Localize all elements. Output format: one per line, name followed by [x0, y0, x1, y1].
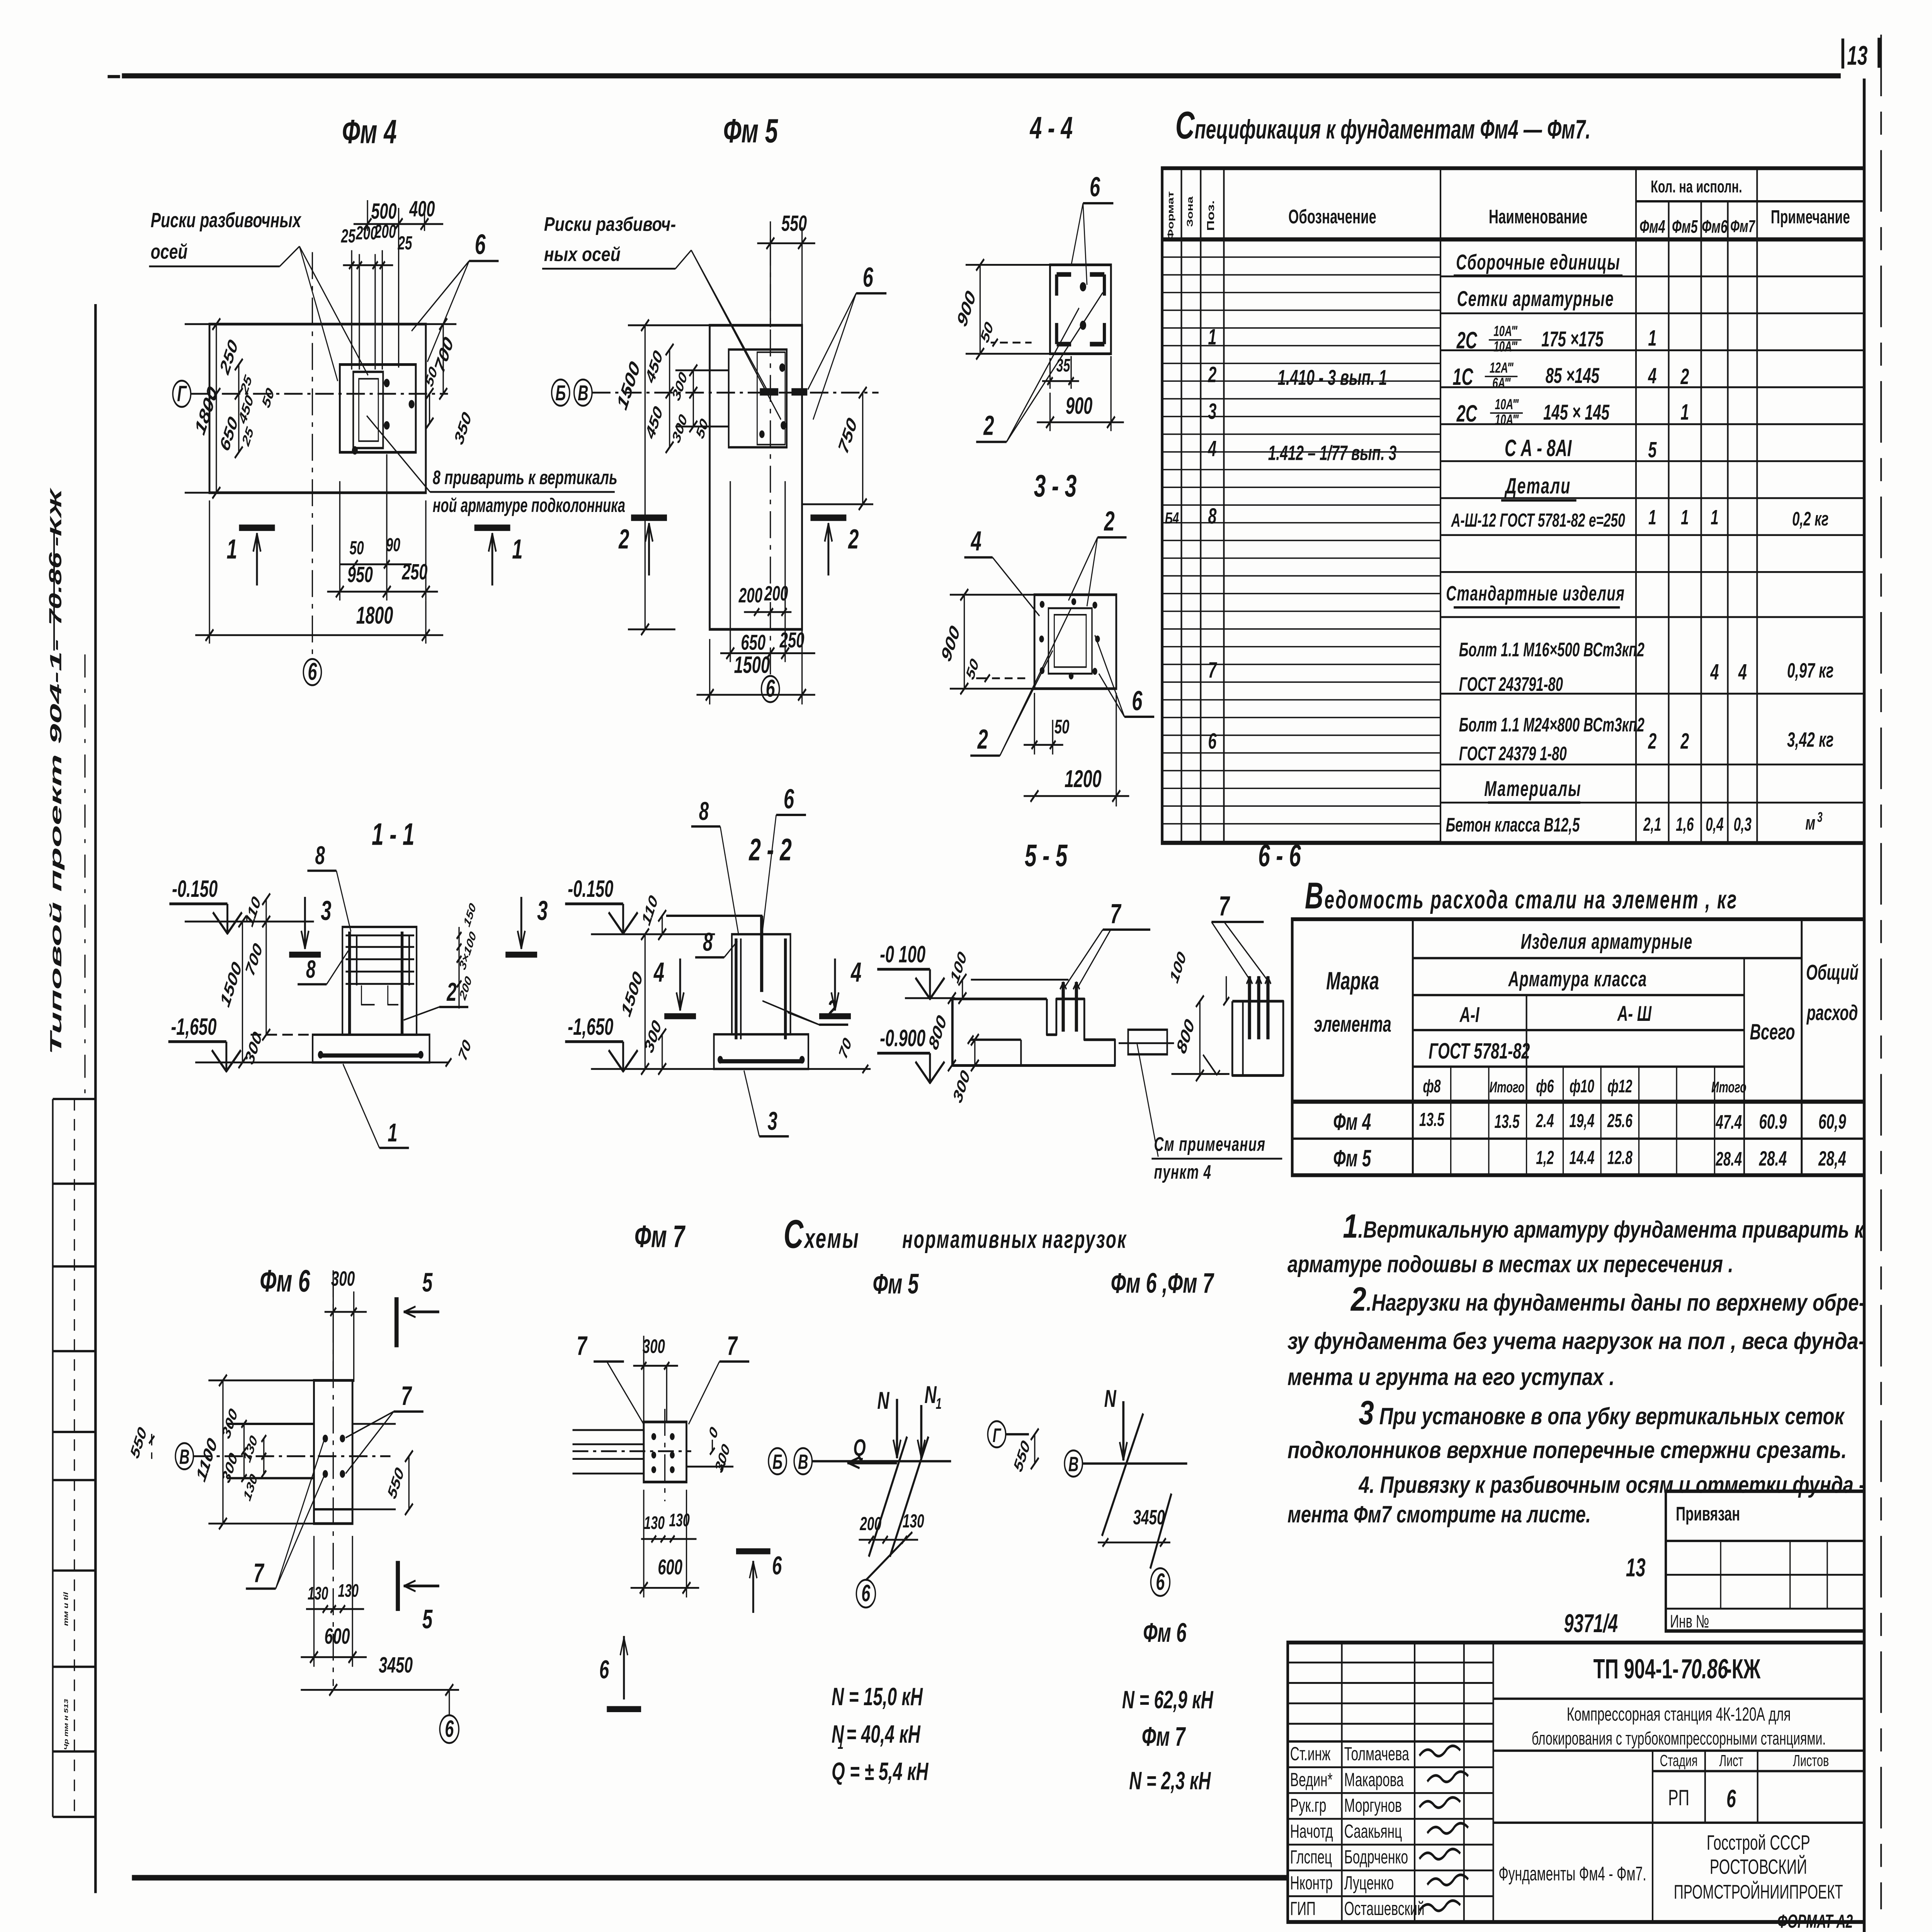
svg-text:-КЖ: -КЖ	[47, 487, 65, 547]
svg-text:0,2 кг: 0,2 кг	[1792, 509, 1828, 530]
svg-text:ной арматуре подколонника: ной арматуре подколонника	[433, 495, 625, 517]
svg-text:250: 250	[402, 560, 428, 584]
svg-text:4: 4	[1738, 660, 1747, 684]
svg-text:Фм 7: Фм 7	[634, 1219, 686, 1254]
svg-text:900: 900	[1066, 393, 1092, 419]
svg-text:7: 7	[253, 1558, 265, 1588]
svg-text:10А‴: 10А‴	[1493, 323, 1518, 339]
svg-text:Фм 6: Фм 6	[260, 1263, 310, 1298]
svg-text:расход: расход	[1806, 1001, 1858, 1025]
svg-text:10А‴: 10А‴	[1495, 412, 1519, 428]
svg-text:В: В	[798, 1450, 808, 1474]
svg-text:6: 6	[772, 1551, 782, 1580]
svg-text:2: 2	[983, 410, 994, 441]
svg-text:2: 2	[1680, 364, 1689, 389]
svg-text:Ст.инж: Ст.инж	[1290, 1743, 1331, 1764]
svg-text:1: 1	[1711, 505, 1719, 529]
svg-text:6: 6	[1726, 1785, 1736, 1813]
svg-text:Фм4: Фм4	[1639, 217, 1665, 237]
svg-text:1: 1	[936, 1395, 942, 1412]
svg-text:1.410 - 3 вып. 1: 1.410 - 3 вып. 1	[1277, 366, 1387, 390]
svg-text:1: 1	[512, 534, 522, 565]
svg-text:1: 1	[1648, 326, 1656, 350]
svg-text:Фм 4: Фм 4	[1333, 1109, 1371, 1135]
svg-text:Q = ± 5,4 кН: Q = ± 5,4 кН	[832, 1757, 929, 1785]
svg-text:25: 25	[398, 232, 413, 253]
svg-text:Арматура класса: Арматура класса	[1508, 967, 1647, 991]
svg-text:1С: 1С	[1452, 364, 1473, 391]
svg-text:14.4: 14.4	[1569, 1147, 1594, 1168]
svg-text:2: 2	[848, 524, 859, 554]
svg-text:Детали: Детали	[1504, 474, 1571, 498]
svg-text:130: 130	[308, 1583, 328, 1603]
svg-text:600: 600	[325, 1624, 350, 1649]
svg-text:пункт 4: пункт 4	[1154, 1162, 1211, 1183]
svg-text:Б4: Б4	[1165, 509, 1179, 527]
svg-text:200: 200	[374, 221, 396, 242]
svg-text:6: 6	[308, 658, 317, 685]
svg-text:нагрузок: нагрузок	[1042, 1225, 1127, 1253]
svg-text:6: 6	[1090, 172, 1100, 202]
svg-text:4: 4	[1208, 436, 1217, 461]
svg-text:6: 6	[1208, 729, 1216, 753]
svg-text:нормативных: нормативных	[902, 1225, 1038, 1253]
svg-text:Q: Q	[853, 1435, 866, 1461]
svg-text:3450: 3450	[379, 1653, 413, 1677]
svg-text:3: 3	[321, 895, 331, 926]
svg-text:Материалы: Материалы	[1484, 777, 1582, 801]
svg-text:7: 7	[401, 1381, 412, 1411]
svg-text:7: 7	[577, 1331, 588, 1361]
svg-text:6: 6	[766, 675, 776, 702]
svg-text:Листов: Листов	[1793, 1752, 1829, 1770]
svg-text:Риски разбивоч-: Риски разбивоч-	[544, 214, 676, 235]
svg-text:Чр тм н 513: Чр тм н 513	[63, 1699, 70, 1750]
svg-text:2,1: 2,1	[1643, 814, 1661, 835]
svg-text:Лист: Лист	[1719, 1752, 1743, 1770]
svg-text:Нконтр: Нконтр	[1290, 1872, 1333, 1893]
svg-text:Всего: Всего	[1750, 1019, 1795, 1044]
svg-text:550: 550	[781, 211, 807, 236]
svg-text:Поз.: Поз.	[1205, 200, 1216, 231]
svg-text:2.4: 2.4	[1536, 1110, 1554, 1131]
svg-text:10А‴: 10А‴	[1495, 396, 1519, 412]
svg-text:-0 100: -0 100	[880, 942, 925, 968]
svg-text:2: 2	[446, 978, 456, 1007]
svg-text:10А‴: 10А‴	[1493, 338, 1518, 355]
svg-text:-1,650: -1,650	[171, 1014, 216, 1040]
svg-text:Фм 5: Фм 5	[873, 1268, 919, 1300]
svg-text:600: 600	[658, 1556, 682, 1580]
svg-text:Ведин*: Ведин*	[1290, 1769, 1333, 1790]
svg-text:8 приварить к вертикаль: 8 приварить к вертикаль	[433, 467, 617, 489]
svg-text:4. Привязку к разбивочным о: 4. Привязку к разбивочным осям и отметки…	[1358, 1472, 1865, 1498]
svg-text:1,2: 1,2	[1536, 1147, 1554, 1168]
svg-text:блокирования с турбокомпрессор: блокирования с турбокомпрессорными станц…	[1532, 1728, 1826, 1748]
svg-text:28,4: 28,4	[1818, 1147, 1846, 1170]
svg-text:4: 4	[1710, 660, 1719, 684]
svg-text:В: В	[1068, 1452, 1079, 1476]
svg-text:ГОСТ 243791-80: ГОСТ 243791-80	[1459, 674, 1563, 696]
svg-text:8: 8	[699, 797, 709, 826]
svg-text:4: 4	[1648, 364, 1656, 388]
svg-text:7: 7	[1208, 658, 1217, 682]
svg-text:-1,650: -1,650	[568, 1014, 613, 1040]
svg-text:12.8: 12.8	[1607, 1147, 1633, 1168]
svg-text:25: 25	[341, 225, 356, 247]
svg-text:3: 3	[1208, 399, 1216, 424]
svg-text:1,6: 1,6	[1676, 814, 1694, 835]
svg-text:-0.900: -0.900	[880, 1026, 925, 1052]
svg-text:7: 7	[1110, 898, 1122, 929]
svg-text:Рук.гр: Рук.гр	[1290, 1795, 1327, 1816]
svg-text:-КЖ: -КЖ	[1725, 1653, 1760, 1684]
svg-text:В: В	[179, 1445, 190, 1469]
svg-text:ФОРМАТ А2: ФОРМАТ А2	[1777, 1911, 1853, 1932]
svg-text:8: 8	[1208, 504, 1216, 529]
svg-text:подколонников верхние попере: подколонников верхние поперечные стержни…	[1287, 1437, 1847, 1464]
svg-text:Б: Б	[555, 381, 566, 405]
svg-text:ф6: ф6	[1536, 1076, 1554, 1096]
svg-text:0,3: 0,3	[1734, 814, 1752, 835]
svg-text:Толмачева: Толмачева	[1344, 1743, 1410, 1764]
svg-text:Фм 6: Фм 6	[1143, 1617, 1187, 1648]
svg-text:19,4: 19,4	[1569, 1110, 1594, 1131]
svg-text:50: 50	[350, 537, 364, 558]
svg-text:Начотд: Начотд	[1290, 1821, 1333, 1842]
svg-text:0,97 кг: 0,97 кг	[1787, 658, 1833, 682]
svg-text:2: 2	[1208, 362, 1217, 387]
svg-text:250: 250	[779, 629, 804, 653]
svg-text:Бетон класса В12,5: Бетон класса В12,5	[1446, 814, 1580, 836]
svg-text:Примечание: Примечание	[1771, 206, 1850, 227]
svg-text:ГОСТ 5781-82: ГОСТ 5781-82	[1429, 1039, 1530, 1063]
svg-text:Сборочные единицы: Сборочные единицы	[1456, 250, 1620, 274]
svg-text:Фм5: Фм5	[1672, 217, 1698, 237]
svg-text:N: N	[1104, 1385, 1117, 1412]
svg-text:ф8: ф8	[1423, 1076, 1441, 1096]
svg-text:Фм7: Фм7	[1730, 217, 1755, 236]
svg-text:90: 90	[386, 534, 400, 555]
svg-text:60.9: 60.9	[1759, 1110, 1787, 1133]
svg-text:См примечания: См примечания	[1154, 1134, 1265, 1155]
svg-text:2: 2	[1104, 506, 1115, 537]
svg-text:500: 500	[371, 199, 396, 224]
svg-text:9371/4: 9371/4	[1564, 1609, 1618, 1638]
svg-text:ГОСТ 24379 1-80: ГОСТ 24379 1-80	[1459, 743, 1567, 765]
svg-text:5: 5	[422, 1604, 433, 1634]
svg-text:N = 15,0 кН: N = 15,0 кН	[832, 1683, 923, 1711]
svg-text:5: 5	[1648, 437, 1657, 462]
svg-text:200: 200	[859, 1513, 881, 1534]
svg-text:130: 130	[903, 1510, 924, 1532]
svg-text:Фм 5: Фм 5	[723, 112, 778, 150]
svg-text:элемента: элемента	[1314, 1012, 1391, 1037]
svg-text:Привязан: Привязан	[1676, 1503, 1740, 1525]
svg-text:6: 6	[784, 784, 794, 815]
svg-text:2: 2	[977, 724, 988, 755]
svg-text:ГИП: ГИП	[1290, 1898, 1316, 1919]
svg-text:Фундаменты Фм4 - Фм7.: Фундаменты Фм4 - Фм7.	[1498, 1863, 1646, 1885]
svg-text:3450: 3450	[1133, 1505, 1165, 1529]
svg-text:Фм6: Фм6	[1702, 217, 1728, 237]
svg-text:0,4: 0,4	[1706, 814, 1723, 835]
svg-text:1 - 1: 1 - 1	[372, 816, 415, 852]
svg-text:Итого: Итого	[1711, 1079, 1747, 1096]
svg-text:зу фундамента без учета на: зу фундамента без учета нагрузок на пол …	[1287, 1328, 1865, 1355]
svg-text:С А - 8АΙ: С А - 8АΙ	[1505, 435, 1572, 462]
svg-text:мента и грунта на его уст: мента и грунта на его уступах .	[1287, 1364, 1615, 1391]
svg-text:м: м	[1805, 813, 1815, 834]
svg-text:4: 4	[850, 957, 861, 988]
svg-text:Моргунов: Моргунов	[1344, 1795, 1402, 1816]
svg-text:ф10: ф10	[1570, 1076, 1594, 1096]
svg-text:13.5: 13.5	[1494, 1111, 1520, 1132]
svg-text:6: 6	[1156, 1569, 1165, 1595]
svg-text:4 - 4: 4 - 4	[1029, 110, 1073, 145]
svg-text:6: 6	[445, 1716, 454, 1742]
svg-text:Фм 5: Фм 5	[1333, 1146, 1371, 1172]
svg-text:5 - 5: 5 - 5	[1025, 838, 1068, 873]
svg-text:1: 1	[1208, 325, 1216, 349]
svg-text:8: 8	[306, 955, 316, 983]
svg-text:Стандартные изделия: Стандартные изделия	[1446, 582, 1625, 605]
svg-text:Компрессорная станция 4К-120А: Компрессорная станция 4К-120А для	[1567, 1704, 1791, 1725]
svg-text:6 - 6: 6 - 6	[1258, 838, 1301, 873]
svg-text:В: В	[578, 381, 588, 405]
svg-text:Б: Б	[772, 1450, 782, 1474]
svg-text:1: 1	[388, 1118, 397, 1147]
svg-text:2: 2	[1648, 729, 1656, 753]
svg-text:Саакьянц: Саакьянц	[1344, 1821, 1402, 1842]
svg-text:5: 5	[422, 1267, 433, 1297]
svg-text:7: 7	[1219, 891, 1230, 922]
svg-text:1.412 – 1/77 вып. 3: 1.412 – 1/77 вып. 3	[1268, 441, 1397, 464]
svg-text:1500: 1500	[734, 652, 770, 679]
svg-text:6А‴: 6А‴	[1492, 375, 1511, 391]
svg-text:3: 3	[767, 1107, 777, 1136]
svg-text:2 - 2: 2 - 2	[748, 832, 792, 867]
svg-text:47.4: 47.4	[1716, 1112, 1742, 1133]
svg-text:Стадия: Стадия	[1660, 1752, 1698, 1770]
svg-text:6: 6	[475, 229, 486, 260]
svg-text:400: 400	[409, 197, 435, 221]
svg-text:Изделия арматурные: Изделия арматурные	[1521, 930, 1693, 954]
svg-text:Фм 6 ,Фм 7: Фм 6 ,Фм 7	[1111, 1267, 1214, 1299]
svg-text:мента Фм7 смотрите на лист: мента Фм7 смотрите на листе.	[1287, 1502, 1591, 1528]
svg-text:3: 3	[1817, 809, 1823, 825]
svg-text:Кол. на исполн.: Кол. на исполн.	[1651, 177, 1742, 196]
svg-text:А- Ш: А- Ш	[1617, 1002, 1652, 1026]
svg-text:35: 35	[1056, 355, 1070, 375]
svg-text:ТП 904-1-: ТП 904-1-	[1593, 1653, 1679, 1684]
svg-text:28.4: 28.4	[1759, 1147, 1787, 1170]
svg-text:25.6: 25.6	[1607, 1110, 1633, 1131]
svg-text:3,42 кг: 3,42 кг	[1787, 728, 1833, 752]
svg-text:= 40,4 кН: = 40,4 кН	[846, 1720, 921, 1748]
svg-text:Макарова: Макарова	[1344, 1769, 1404, 1790]
svg-text:4: 4	[970, 526, 981, 556]
svg-text:Итого: Итого	[1490, 1079, 1525, 1096]
svg-text:950: 950	[347, 562, 373, 587]
svg-text:Фм 7: Фм 7	[1142, 1721, 1186, 1752]
svg-text:Наименование: Наименование	[1489, 206, 1587, 228]
svg-text:А-Ι: А-Ι	[1459, 1003, 1480, 1027]
svg-text:2: 2	[618, 524, 629, 554]
svg-text:N = 62,9 кН: N = 62,9 кН	[1122, 1686, 1214, 1714]
svg-text:1: 1	[838, 1735, 844, 1752]
svg-text:6: 6	[861, 1581, 871, 1607]
svg-text:ных осей: ных осей	[544, 244, 621, 265]
svg-text:12А‴: 12А‴	[1490, 360, 1514, 376]
svg-text:Г: Г	[177, 381, 187, 406]
svg-text:70.86: 70.86	[46, 552, 65, 626]
svg-text:8: 8	[703, 928, 713, 957]
svg-text:6: 6	[599, 1655, 609, 1684]
svg-text:2С: 2С	[1456, 328, 1478, 354]
svg-text:Глспец: Глспец	[1290, 1846, 1332, 1867]
svg-text:-0.150: -0.150	[172, 876, 218, 903]
svg-text:Зона: Зона	[1185, 196, 1195, 227]
svg-text:130: 130	[338, 1580, 359, 1600]
svg-text:13.5: 13.5	[1419, 1109, 1445, 1130]
svg-text:Типовой проект 904-1-: Типовой проект 904-1-	[47, 639, 65, 1055]
svg-text:4: 4	[653, 957, 664, 988]
svg-text:Сетки арматурные: Сетки арматурные	[1457, 287, 1614, 311]
svg-text:Болт 1.1 М16×500 ВСт3кп2: Болт 1.1 М16×500 ВСт3кп2	[1459, 639, 1645, 661]
svg-text:145 × 145: 145 × 145	[1543, 401, 1610, 425]
svg-text:175 ×175: 175 ×175	[1541, 328, 1604, 352]
svg-text:1: 1	[226, 534, 237, 565]
svg-text:1: 1	[1681, 505, 1689, 529]
svg-text:200: 200	[738, 583, 763, 607]
svg-text:РП: РП	[1668, 1786, 1689, 1810]
svg-text:Инв №: Инв №	[1670, 1611, 1709, 1631]
svg-text:2С: 2С	[1456, 401, 1478, 427]
svg-text:Луценко: Луценко	[1344, 1872, 1394, 1893]
svg-text:1800: 1800	[356, 602, 393, 629]
svg-text:N = 2,3 кН: N = 2,3 кН	[1129, 1767, 1211, 1794]
svg-text:13: 13	[1626, 1553, 1646, 1582]
svg-text:Обозначение: Обозначение	[1288, 206, 1376, 228]
svg-text:85 ×145: 85 ×145	[1546, 364, 1600, 388]
svg-text:Марка: Марка	[1326, 967, 1379, 995]
svg-text:Болт 1.1 М24×800 ВСт3кп2: Болт 1.1 М24×800 ВСт3кп2	[1459, 714, 1645, 736]
svg-text:6: 6	[863, 262, 874, 293]
svg-text:650: 650	[741, 631, 765, 655]
svg-text:-0.150: -0.150	[568, 876, 613, 903]
svg-text:Госстрой СССР: Госстрой СССР	[1707, 1831, 1810, 1854]
svg-text:Общий: Общий	[1806, 961, 1859, 985]
svg-text:Осташевский: Осташевский	[1344, 1898, 1425, 1919]
svg-text:2: 2	[827, 995, 837, 1024]
svg-text:1: 1	[1648, 505, 1656, 529]
svg-text:1200: 1200	[1065, 765, 1102, 793]
svg-text:300: 300	[331, 1267, 355, 1290]
svg-text:Бодрченко: Бодрченко	[1344, 1846, 1408, 1867]
svg-text:осей: осей	[151, 240, 188, 263]
svg-text:50: 50	[1054, 716, 1070, 738]
svg-text:13: 13	[1847, 40, 1867, 70]
svg-text:Формат: Формат	[1165, 191, 1175, 240]
svg-text:А-Ш-12 ГОСТ 5781-82 е=250: А-Ш-12 ГОСТ 5781-82 е=250	[1451, 509, 1625, 531]
svg-text:РОСТОВСКИЙ: РОСТОВСКИЙ	[1710, 1855, 1807, 1879]
svg-text:ПРОМСТРОЙНИИПРОЕКТ: ПРОМСТРОЙНИИПРОЕКТ	[1674, 1880, 1843, 1903]
svg-text:N: N	[877, 1387, 889, 1414]
svg-text:60,9: 60,9	[1818, 1110, 1846, 1133]
svg-text:3 - 3: 3 - 3	[1034, 468, 1077, 503]
svg-text:2: 2	[1680, 729, 1689, 753]
svg-text:Фм 4: Фм 4	[342, 112, 396, 150]
svg-text:130: 130	[644, 1513, 665, 1533]
svg-text:Риски разбивочных: Риски разбивочных	[151, 208, 302, 232]
svg-text:тм и til: тм и til	[63, 1592, 70, 1626]
svg-text:Г: Г	[993, 1425, 1002, 1446]
svg-text:6: 6	[1132, 685, 1143, 716]
svg-text:N: N	[925, 1381, 937, 1408]
svg-text:300: 300	[643, 1336, 665, 1357]
svg-text:3: 3	[537, 895, 548, 926]
svg-text:арматуре подошвы в местах: арматуре подошвы в местах их пересечения…	[1287, 1252, 1733, 1278]
svg-text:7: 7	[727, 1331, 738, 1361]
svg-text:1: 1	[1680, 400, 1689, 425]
svg-text:70.86: 70.86	[1680, 1653, 1728, 1684]
svg-text:ф12: ф12	[1607, 1076, 1632, 1096]
svg-text:8: 8	[315, 841, 325, 870]
svg-text:28.4: 28.4	[1716, 1148, 1742, 1170]
